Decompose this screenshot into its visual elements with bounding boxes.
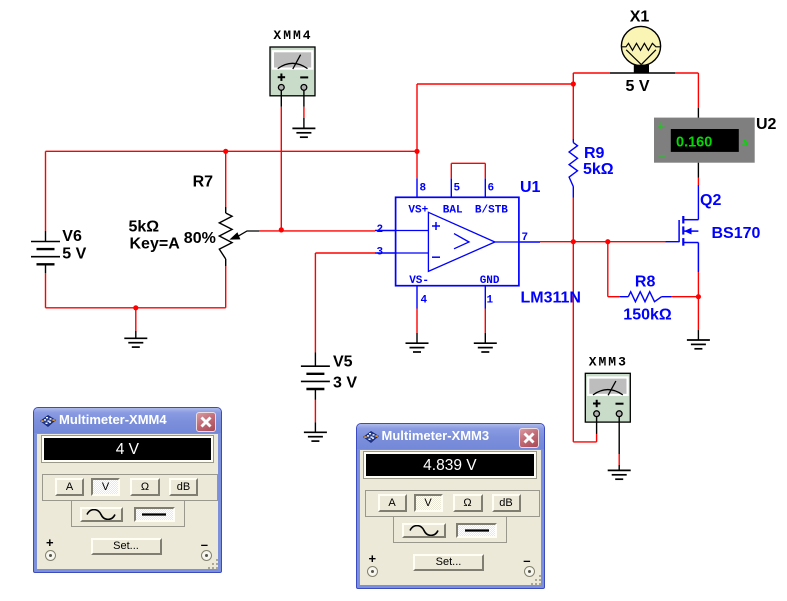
svg-text:VS-: VS-: [409, 275, 429, 287]
svg-text:3 V: 3 V: [333, 375, 357, 392]
svg-text:5kΩ: 5kΩ: [583, 161, 614, 178]
svg-text:XMM3: XMM3: [589, 354, 628, 369]
svg-text:6: 6: [488, 183, 495, 195]
svg-text:VS+: VS+: [408, 205, 428, 217]
svg-text:X1: X1: [630, 9, 650, 26]
svg-text:150kΩ: 150kΩ: [623, 306, 672, 323]
svg-text:2: 2: [377, 224, 384, 236]
svg-text:0.160: 0.160: [676, 135, 712, 151]
svg-text:R9: R9: [584, 145, 605, 162]
svg-text:R7: R7: [193, 174, 214, 191]
svg-text:U2: U2: [756, 116, 777, 133]
svg-text:5 V: 5 V: [625, 78, 649, 95]
svg-text:R8: R8: [635, 273, 656, 290]
svg-text:3: 3: [377, 247, 384, 259]
svg-text:80%: 80%: [184, 230, 216, 247]
svg-text:+: +: [658, 118, 666, 133]
svg-text:GND: GND: [480, 275, 500, 287]
svg-text:XMM4: XMM4: [273, 28, 312, 43]
svg-text:5: 5: [454, 183, 461, 195]
svg-text:LM311N: LM311N: [521, 290, 581, 307]
svg-text:4: 4: [421, 295, 428, 307]
svg-text:V5: V5: [333, 354, 353, 371]
svg-text:A: A: [742, 138, 749, 148]
svg-text:B/STB: B/STB: [475, 205, 508, 217]
svg-text:V6: V6: [62, 228, 82, 245]
svg-text:8: 8: [420, 183, 427, 195]
svg-text:U1: U1: [520, 179, 541, 196]
svg-text:−: −: [658, 148, 666, 163]
svg-text:1: 1: [487, 295, 494, 307]
svg-text:Key=A: Key=A: [130, 236, 181, 253]
svg-text:5kΩ: 5kΩ: [129, 219, 160, 236]
svg-text:7: 7: [522, 232, 529, 244]
svg-text:Q2: Q2: [700, 192, 721, 209]
svg-text:BS170: BS170: [712, 225, 761, 242]
svg-text:BAL: BAL: [443, 205, 463, 217]
svg-text:5 V: 5 V: [62, 246, 86, 263]
